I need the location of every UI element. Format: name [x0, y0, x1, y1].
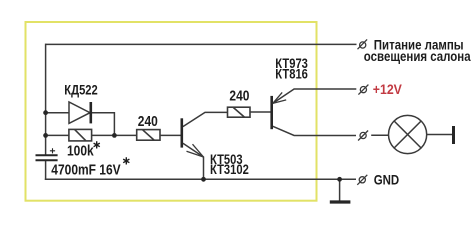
resistor 100k: [69, 129, 92, 141]
junction node Q1 emitter-bottom rail: [201, 177, 206, 182]
resistor R3 240 (base of Q2): [228, 107, 251, 117]
yellow frame: [26, 22, 317, 201]
lamp: [389, 115, 427, 153]
capacitor 4700mF: [36, 148, 58, 160]
wire left rail upper: [45, 44, 47, 155]
svg-text:КТ816: КТ816: [275, 66, 308, 81]
terminal +12V: [358, 85, 368, 95]
junction node rail-resistor: [43, 133, 48, 138]
asterisk of 100k: [94, 141, 100, 148]
chassis bar: [452, 126, 455, 144]
wire Q2 collector to lamp terminal: [273, 126, 356, 135]
diode KD522: [69, 102, 91, 123]
resistor R2 240 (base of Q1): [137, 130, 160, 141]
wire GND junction to ground: [339, 179, 341, 201]
wire R2 240 to Q2 base: [250, 111, 271, 113]
svg-text:КТ3102: КТ3102: [210, 162, 249, 177]
wire R 240 to Q1 base: [160, 134, 181, 136]
wire lamp to chassis bar: [427, 134, 452, 136]
junction node ground branch: [337, 177, 342, 182]
wire node to R 240: [92, 134, 137, 136]
wire lamp terminal to lamp: [371, 134, 388, 136]
junction node rail-diode: [43, 110, 48, 115]
svg-text:освещения салона: освещения салона: [364, 48, 472, 64]
asterisk of capacitor: [123, 157, 129, 164]
ground: [330, 200, 351, 203]
junction node diode/R join: [112, 133, 117, 138]
svg-text:240: 240: [229, 87, 249, 104]
transistor Q1 KT503: [182, 118, 204, 179]
wire Q2 emitter to +12V: [273, 89, 357, 103]
wire rail to R 100k: [46, 134, 69, 136]
wire diode cathode to node: [91, 113, 115, 136]
wire left rail lower: [45, 160, 47, 180]
wire Q1 collector to R2 240: [183, 112, 228, 126]
wire bottom rail: [45, 178, 356, 180]
terminal GND: [357, 175, 367, 185]
wire diode anode: [46, 112, 69, 114]
transistor Q2 KT973: [272, 92, 287, 129]
svg-text:240: 240: [138, 113, 158, 130]
terminal lamp supply: [358, 39, 368, 49]
svg-text:КД522: КД522: [64, 82, 97, 97]
svg-text:GND: GND: [374, 171, 400, 187]
wire top rail: [46, 43, 357, 45]
terminal lamp: [358, 131, 368, 141]
svg-text:100k: 100k: [67, 142, 94, 159]
svg-text:+12V: +12V: [373, 81, 402, 97]
svg-text:4700mF 16V: 4700mF 16V: [51, 161, 120, 178]
